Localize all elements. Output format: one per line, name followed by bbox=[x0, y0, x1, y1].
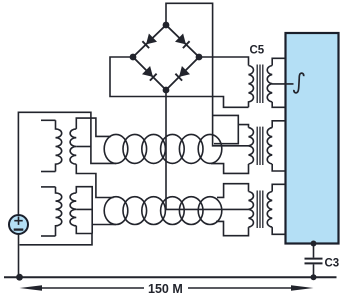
wire: bridge bottom node down to lower twisted pair bbox=[166, 90, 249, 209]
transformer T3 primary winding (left coil) bbox=[249, 66, 254, 108]
twisted pair TP1 (upper) bbox=[104, 134, 222, 163]
wire: T2 secondary top to TP2 bottom conductor bbox=[76, 187, 116, 234]
wire: bridge top node loop to upper twisted pair bbox=[166, 3, 249, 146]
wire: lower pair top conductor to T5 primary top bbox=[217, 184, 249, 198]
wire: T5 secondary bottom to U1 bbox=[272, 227, 285, 234]
ground rail bbox=[4, 276, 337, 278]
transformer T2 secondary winding (right coil) bbox=[70, 193, 76, 226]
diode D1 (top-left arm, pointing to left node) bbox=[142, 34, 157, 49]
wire: T4 secondary bottom to U1 bbox=[272, 164, 285, 171]
svg-text:150 M: 150 M bbox=[148, 282, 183, 296]
transformer T5 core bbox=[257, 191, 263, 229]
wire: T1 secondary bottom to TP2 top conductor bbox=[76, 164, 113, 197]
dimension arrowhead left bbox=[20, 285, 43, 291]
twisted pair TP2 (lower) bbox=[104, 197, 222, 225]
wire: T5 secondary top to U1 bbox=[272, 184, 285, 191]
transformer T1 primary winding (left coil) bbox=[56, 120, 62, 171]
transformer T4 primary winding (left coil) bbox=[249, 128, 254, 164]
wire: tap from T3 secondary to integrator bbox=[272, 83, 294, 85]
node dot: bridge left bbox=[130, 54, 137, 61]
stub: T1 primary bottom lead bbox=[41, 171, 56, 173]
diode bridge edges bbox=[133, 25, 199, 90]
wire: T2 secondary center tap bbox=[76, 208, 92, 210]
stub: T2 primary bottom lead bbox=[41, 235, 56, 237]
node dot: bridge bottom bbox=[163, 87, 170, 94]
wire: T4 secondary top to U1 bbox=[272, 121, 285, 128]
transformer T2 primary winding (left coil) bbox=[56, 187, 62, 236]
stub: T2 primary top lead bbox=[41, 186, 56, 188]
wire: upper pair bottom conductor to T4 primary bottom bbox=[211, 164, 249, 174]
transformer T4 core bbox=[257, 127, 263, 165]
node dot: bridge right bbox=[196, 54, 203, 61]
wire: C3 to ground rail bbox=[313, 264, 315, 277]
transformer T3 core bbox=[257, 65, 263, 104]
capacitor C3 bbox=[305, 259, 323, 264]
wire: source bottom to ground rail bbox=[18, 234, 20, 277]
svg-text:C3: C3 bbox=[325, 258, 340, 270]
wire: upper pair top conductor to T4 primary top bbox=[213, 115, 249, 143]
wire: bridge right node to T3 primary top bbox=[199, 57, 249, 66]
wire: bridge left node loop to T3 primary bottom bbox=[110, 57, 249, 107]
dimension arrowhead right bbox=[291, 285, 314, 291]
source plus symbol bbox=[14, 217, 22, 225]
junction dot: U1 bottom to C3 bbox=[311, 241, 317, 247]
wire: T3 secondary bottom to U1 bbox=[272, 102, 285, 107]
node dot: bridge top bbox=[163, 22, 170, 29]
dimension line 150 M bbox=[30, 287, 303, 289]
source minus symbol bbox=[14, 228, 24, 230]
transformer T3 secondary winding (right coil) bbox=[267, 66, 272, 102]
diode D4 (bottom-right arm, pointing to bottom node) bbox=[175, 66, 190, 81]
wire: T1 secondary center tap bbox=[76, 146, 91, 148]
wire: T2 secondary bottom to source return bbox=[20, 226, 93, 245]
junction dot: source to ground rail bbox=[16, 274, 23, 281]
wire: U1 bottom to C3 bbox=[313, 244, 315, 258]
wire: source bus to TP1 bottom conductor bbox=[18, 112, 116, 214]
source V1 (AC/DC source circle) bbox=[9, 215, 28, 234]
diode D2 (top-right arm, pointing to right node) bbox=[175, 34, 190, 49]
junction dot: C3 to ground rail bbox=[311, 274, 317, 280]
integrator symbol inside U1 bbox=[294, 73, 304, 93]
transformer T1 secondary winding (right coil) bbox=[70, 129, 76, 164]
svg-text:C5: C5 bbox=[250, 45, 265, 57]
diode D3 (bottom-left arm, pointing to bottom node) bbox=[142, 66, 157, 81]
wire: T1 secondary top to TP1 top conductor bbox=[76, 118, 111, 136]
transformer T5 primary winding (left coil) bbox=[249, 192, 254, 228]
wire: T3 secondary top to U1 bbox=[272, 58, 285, 65]
transformer T5 secondary winding (right coil) bbox=[267, 192, 272, 228]
IC module U1 (blue box) bbox=[286, 33, 339, 244]
stub: T1 primary top lead bbox=[41, 119, 56, 121]
wire: lower pair bottom conductor to T5 primary bottom bbox=[216, 221, 249, 235]
transformer T4 secondary winding (right coil) bbox=[267, 128, 272, 164]
